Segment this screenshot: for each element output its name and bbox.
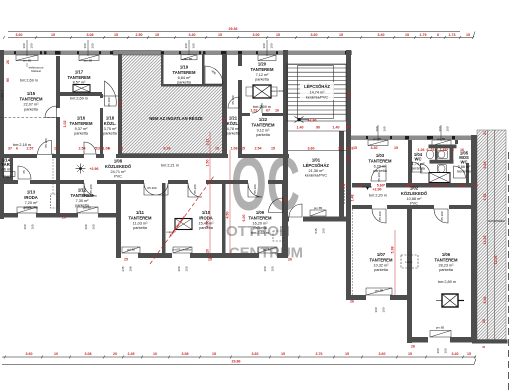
svg-text:360: 360 (375, 126, 379, 131)
level symbol 1/02 (362, 187, 372, 190)
dashed lines (0, 118, 509, 390)
svg-text:3.60: 3.60 (16, 33, 23, 37)
svg-text:TANTEREM: TANTEREM (251, 67, 274, 72)
top overall chain line (8, 31, 460, 33)
svg-text:22,07 m²: 22,07 m² (24, 103, 40, 107)
dashed box LM.K near 1/07 (401, 255, 418, 268)
doors (arcs) (18, 66, 448, 223)
red dims right block corridor wall (341, 184, 479, 188)
wall under 1/17 (56, 92, 102, 96)
svg-text:65: 65 (22, 170, 26, 174)
svg-text:5.46: 5.46 (483, 297, 487, 304)
svg-text:9,37 m²: 9,37 m² (75, 127, 89, 131)
radiator 1/10 window (173, 247, 192, 253)
svg-text:360: 360 (374, 307, 378, 312)
red dims bottom walls (62, 216, 415, 349)
svg-text:parketta: parketta (226, 132, 241, 136)
thin line staircase opening to corridor (288, 150, 346, 152)
svg-text:TANTEREM: TANTEREM (249, 216, 272, 221)
door 1/03 (371, 166, 386, 181)
room 1/06 TANTEREM (435, 252, 458, 284)
svg-text:TANTEREM: TANTEREM (370, 258, 393, 263)
svg-text:kerámia/PVC: kerámia/PVC (306, 96, 329, 100)
svg-text:05: 05 (346, 126, 350, 130)
inner wall between 1/01 and shaft (339, 131, 344, 217)
svg-text:1.31: 1.31 (433, 184, 440, 188)
red vertical line 1/07 (394, 230, 396, 295)
svg-text:160: 160 (322, 228, 326, 233)
svg-text:pm:85: pm:85 (436, 326, 445, 330)
staircase left wall (283, 50, 288, 198)
svg-text:25: 25 (124, 258, 128, 262)
corridor 1/02 bottom wall (352, 205, 372, 209)
wall between 1/07 and 1/06 (407, 209, 412, 343)
svg-text:360: 360 (177, 266, 181, 271)
door 1/01 to 1/09 side (269, 198, 284, 213)
right wall of left block (346, 50, 351, 225)
door 1/16 to corridor (84, 142, 96, 154)
svg-text:1.40: 1.40 (333, 126, 340, 130)
svg-text:245: 245 (121, 266, 125, 271)
svg-text:1.08: 1.08 (103, 146, 110, 150)
svg-text:bm:2,69 m: bm:2,69 m (253, 105, 271, 109)
svg-text:1/07: 1/07 (377, 252, 386, 257)
svg-text:kerámia: kerámia (457, 170, 471, 174)
room 1/16 TANTEREM (70, 116, 93, 136)
radiator 1/11 window (122, 247, 140, 253)
red dims bottom of hatch (123, 145, 125, 149)
svg-text:KÖZLEKEDŐ: KÖZLEKEDŐ (401, 191, 428, 196)
svg-text:2.50: 2.50 (136, 33, 143, 37)
svg-text:16,20 m²: 16,20 m² (253, 222, 269, 226)
right wall of 1/09 (282, 180, 288, 258)
svg-text:kerámia/PVC: kerámia/PVC (305, 174, 328, 178)
svg-text:67: 67 (266, 109, 270, 113)
bottom wall of staircase 1/01 (283, 217, 289, 222)
svg-text:TANTEREM: TANTEREM (435, 258, 458, 263)
watermark OC Otthon Centrum (226, 142, 303, 262)
svg-text:KÖZLEKEDŐ: KÖZLEKEDŐ (105, 164, 132, 169)
partition between 1/20 and 1/22 (242, 113, 250, 116)
hatched strip SZOMSZED (477, 130, 506, 340)
wall between 1/15 and 1/17 (56, 56, 60, 108)
svg-text:65 200: 65 200 (147, 186, 157, 190)
svg-text:kerámia: kerámia (411, 167, 425, 171)
left edge vertical text (0, 90, 4, 101)
svg-text:1.02: 1.02 (251, 109, 258, 113)
svg-text:7,20 m²: 7,20 m² (25, 201, 39, 205)
svg-text:pnl:85: pnl:85 (23, 206, 32, 210)
svg-text:15: 15 (345, 352, 349, 356)
red diagonal dashed measure line (150, 176, 214, 264)
svg-text:3.08: 3.08 (85, 352, 92, 356)
svg-text:1/03: 1/03 (376, 153, 385, 158)
svg-text:37: 37 (8, 146, 12, 150)
svg-text:7,12 m²: 7,12 m² (256, 73, 270, 77)
svg-text:7,30 m²: 7,30 m² (76, 199, 90, 203)
room 1/19 left partition (161, 54, 164, 86)
svg-text:TANTEREM: TANTEREM (68, 75, 91, 80)
left wall of right block lower part (346, 225, 351, 300)
svg-text:3.08: 3.08 (87, 33, 94, 37)
dashed ceiling line in 1/15 (0, 117, 56, 119)
hatched bottom edge of szomszed (472, 340, 508, 344)
svg-text:16: 16 (474, 184, 478, 188)
svg-text:bm:2,21 m: bm:2,21 m (161, 164, 179, 168)
door 1/15 to corridor (38, 141, 52, 155)
svg-text:8: 8 (427, 184, 429, 188)
wall between 1/12 and 1/11 (116, 184, 121, 258)
svg-text:24: 24 (431, 148, 435, 152)
radiator 1/06 window (430, 331, 451, 338)
red small dims left edge (6, 60, 287, 222)
red dims right block top (353, 146, 464, 152)
svg-text:KÖZL.: KÖZL. (104, 121, 117, 126)
partition 1/11-1/10 (162, 183, 166, 253)
svg-text:1.02: 1.02 (63, 121, 67, 128)
shaft with X in 1/20 (253, 85, 271, 98)
svg-text:25: 25 (283, 198, 287, 202)
svg-text:26: 26 (411, 345, 415, 349)
svg-text:1.35: 1.35 (483, 194, 487, 201)
svg-text:LÉPCSŐHÁZ: LÉPCSŐHÁZ (303, 163, 329, 168)
svg-text:bm:2,69 m: bm:2,69 m (20, 79, 38, 83)
svg-text:1.08: 1.08 (231, 146, 238, 150)
staircase inner stairwell rect (298, 66, 334, 119)
svg-text:3.60: 3.60 (379, 352, 386, 356)
svg-text:1.26: 1.26 (459, 184, 466, 188)
svg-text:14,74 m²: 14,74 m² (310, 91, 326, 95)
door 1/20-1/22 (252, 103, 262, 113)
svg-text:15: 15 (54, 146, 58, 150)
bottom wall of 1/07 (346, 295, 366, 300)
svg-text:160: 160 (383, 126, 387, 131)
room 1/21 KOZL (226, 116, 241, 136)
hatch area right wall (222, 54, 227, 158)
svg-text:5.64: 5.64 (483, 162, 487, 169)
svg-text:3,75 m²: 3,75 m² (104, 127, 118, 131)
room 1/18 KOZL (103, 116, 118, 136)
svg-text:1/08: 1/08 (114, 159, 123, 164)
svg-text:15: 15 (276, 33, 280, 37)
room 1/04 WC (411, 152, 425, 171)
thin line top of 1/01 (stair landing line) (288, 130, 346, 132)
hatch area bottom wall / corridor top (118, 154, 227, 159)
svg-text:3.60: 3.60 (26, 352, 33, 356)
1/16 top opening line (103, 95, 118, 97)
svg-text:bm:2,18 m: bm:2,18 m (13, 143, 31, 147)
room 1/05 MOS WC (457, 151, 471, 174)
svg-text:pnl:85: pnl:85 (127, 248, 136, 252)
bottom wall of 1/06 (412, 337, 428, 343)
svg-text:1/12: 1/12 (78, 188, 87, 193)
hatched area NEM AZ INGATLAN RESZE (120, 54, 224, 154)
svg-text:PVC: PVC (410, 202, 418, 206)
red vertical chain line right of 1/10 (229, 150, 231, 258)
svg-text:15: 15 (394, 146, 398, 150)
door 1/21 (228, 97, 239, 108)
svg-text:2.54: 2.54 (79, 146, 86, 150)
svg-text:parketta: parketta (373, 169, 388, 173)
storage 1/14 walls (10, 158, 13, 180)
hatched wall segment over not-property area (113, 51, 161, 56)
svg-text:16 1: 16 1 (341, 184, 348, 188)
svg-text:6,29 m²: 6,29 m² (374, 165, 388, 169)
room 1/09 TANTEREM (249, 210, 272, 235)
svg-text:85 200: 85 200 (193, 184, 197, 194)
svg-text:360: 360 (83, 43, 87, 48)
door 400 in hatch area (205, 66, 223, 84)
svg-text:24,71 m²: 24,71 m² (111, 170, 127, 174)
svg-text:510: 510 (95, 146, 101, 150)
svg-text:15: 15 (212, 352, 216, 356)
svg-text:LÉPCSŐHÁZ: LÉPCSŐHÁZ (304, 84, 330, 89)
red dims staircase width (297, 126, 351, 130)
svg-text:1/15: 1/15 (27, 91, 36, 96)
svg-text:IRODA: IRODA (199, 216, 213, 221)
right block top exterior wall band (348, 136, 477, 141)
svg-text:6.26: 6.26 (164, 146, 171, 150)
svg-text:KÖZL.: KÖZL. (227, 121, 240, 126)
svg-text:10,88 m²: 10,88 m² (407, 197, 423, 201)
svg-text:3.00: 3.00 (253, 33, 260, 37)
svg-text:15: 15 (218, 33, 222, 37)
svg-text:15: 15 (353, 146, 357, 150)
svg-text:6: 6 (452, 148, 454, 152)
door 1/13 (18, 166, 31, 179)
corridor 1/02 label (369, 186, 428, 206)
door 1/01 bottom (289, 204, 302, 217)
svg-text:15,42 m²: 15,42 m² (199, 222, 215, 226)
svg-text:3.40: 3.40 (371, 146, 378, 150)
wall right of door 400 (238, 54, 242, 66)
dashed lines in right block left wall (344, 184, 346, 204)
room 1/19 bottom partition (161, 84, 223, 87)
svg-text:9.31: 9.31 (347, 92, 351, 99)
double door 1/11 (144, 183, 156, 195)
svg-text:5.38: 5.38 (391, 247, 395, 254)
room 1/03 TANTEREM (369, 153, 392, 173)
svg-text:29.36: 29.36 (229, 27, 238, 31)
svg-text:10: 10 (153, 352, 157, 356)
svg-text:160: 160 (271, 266, 275, 271)
svg-text:15: 15 (241, 146, 245, 150)
svg-text:parketta: parketta (199, 226, 214, 230)
svg-text:3.60: 3.60 (311, 33, 318, 37)
svg-text:3.60: 3.60 (308, 146, 315, 150)
svg-text:pnl:85: pnl:85 (83, 206, 92, 210)
radiator 1/07 window (366, 288, 392, 295)
svg-text:28,23 m²: 28,23 m² (439, 264, 455, 268)
hatch area left wall (118, 54, 122, 158)
top exterior wall band (0, 51, 352, 56)
bottom dimension chain (2, 356, 476, 358)
room 1/12 TANTEREM (71, 188, 94, 208)
svg-text:90: 90 (316, 126, 320, 130)
svg-text:pnl:85 radiátor: pnl:85 radiátor (172, 248, 191, 252)
svg-text:21: 21 (483, 131, 487, 135)
thin room outline lines (103, 96, 346, 151)
door 1/09 (248, 183, 262, 197)
red vertical dims szomszed strip (482, 131, 498, 348)
svg-text:bm:85: bm:85 (184, 57, 193, 61)
svg-text:6: 6 (437, 33, 439, 37)
svg-text:pm:85: pm:85 (437, 137, 446, 141)
svg-text:1/06: 1/06 (442, 252, 451, 257)
svg-text:1/21: 1/21 (229, 116, 238, 121)
svg-text:mkng: mkng (166, 230, 174, 234)
svg-text:8,57 m²: 8,57 m² (73, 81, 87, 85)
dashed shaft next to wall 1/13 (51, 194, 58, 208)
svg-text:13.56: 13.56 (483, 236, 487, 245)
svg-text:26: 26 (6, 60, 10, 64)
svg-text:1/22: 1/22 (259, 117, 268, 122)
svg-text:15: 15 (467, 352, 471, 356)
svg-text:6.00: 6.00 (242, 215, 246, 222)
svg-text:1/10: 1/10 (202, 210, 211, 215)
svg-text:3.08: 3.08 (182, 352, 189, 356)
svg-text:pnl:85: pnl:85 (263, 248, 272, 252)
svg-text:1/09: 1/09 (256, 210, 265, 215)
svg-text:parketta: parketta (439, 268, 454, 272)
svg-text:1/19: 1/19 (180, 65, 189, 70)
svg-text:3.40: 3.40 (378, 33, 385, 37)
svg-text:1/13: 1/13 (27, 190, 36, 195)
svg-text:3.40: 3.40 (452, 352, 459, 356)
svg-text:1.50: 1.50 (206, 160, 210, 167)
svg-text:160: 160 (192, 43, 196, 48)
wall under 1/03 and WC (352, 183, 371, 188)
svg-text:65 200: 65 200 (231, 95, 235, 105)
svg-text:15: 15 (405, 33, 409, 37)
svg-text:3.19: 3.19 (118, 101, 122, 108)
WC shaft crossed (429, 173, 450, 183)
wall between 1/13 and 1/12 (56, 158, 60, 215)
door 1/06 (434, 209, 448, 223)
svg-text:2.54: 2.54 (255, 146, 262, 150)
svg-text:10,32 m²: 10,32 m² (374, 264, 390, 268)
room 1/22 TANTEREM (252, 117, 275, 137)
svg-text:parketta: parketta (103, 132, 118, 136)
door 1/18 (105, 81, 117, 106)
svg-text:85 200: 85 200 (44, 138, 48, 148)
svg-text:parketta: parketta (255, 78, 270, 82)
radiator 1/01 (310, 210, 326, 216)
window centre ticks top (27, 40, 267, 56)
shaft with X in 1/06 (442, 294, 458, 307)
svg-text:360: 360 (436, 348, 440, 353)
svg-text:szem:200: szem:200 (270, 89, 283, 93)
room 1/17 TANTEREM (68, 59, 93, 101)
svg-text:160: 160 (185, 266, 189, 271)
svg-text:160: 160 (30, 43, 34, 48)
svg-text:15: 15 (408, 352, 412, 356)
room 1/07 TANTEREM (370, 252, 393, 272)
svg-text:TÁR.: TÁR. (1, 162, 11, 167)
svg-text:IRODA: IRODA (24, 195, 38, 200)
small boxes beside shaft (246, 87, 253, 96)
radiator 1/09 window (258, 247, 277, 253)
svg-text:bm:2,69 m: bm:2,69 m (70, 97, 88, 101)
room 1/20 TANTEREM (251, 62, 284, 110)
svg-text:8: 8 (482, 346, 486, 348)
svg-text:360: 360 (184, 43, 188, 48)
red vertical chain center (209, 132, 211, 258)
svg-text:360: 360 (23, 224, 27, 229)
staircase 1/01 label (303, 158, 329, 178)
svg-text:TANTEREM: TANTEREM (20, 97, 43, 102)
svg-text:15: 15 (466, 33, 470, 37)
svg-text:15: 15 (215, 146, 219, 150)
chimney box in 1/10 (175, 219, 192, 230)
svg-text:parketta: parketta (133, 226, 148, 230)
svg-text:360: 360 (84, 224, 88, 229)
svg-text:15: 15 (51, 33, 55, 37)
top chain numbers (16, 33, 471, 37)
svg-text:WC: WC (415, 157, 422, 162)
window symbols under top band (16, 55, 276, 61)
blackboard symbol in 1/17 (73, 85, 90, 93)
bottom wall of 1/13 1/12 (0, 213, 18, 218)
top dimension chain line (8, 37, 473, 39)
svg-text:15: 15 (155, 33, 159, 37)
svg-text:21,36 m²: 21,36 m² (309, 169, 325, 173)
svg-text:85 200: 85 200 (253, 184, 257, 194)
svg-text:3.11: 3.11 (347, 157, 351, 164)
partition right of room 1/19 (202, 54, 205, 86)
svg-text:3.40: 3.40 (189, 33, 196, 37)
WC toilets (426, 150, 447, 173)
door 1/07 (372, 209, 386, 223)
room 1/15 TANTEREM (20, 59, 44, 112)
door size labels rotated (22, 69, 444, 221)
radiator 1/13 window (17, 207, 37, 213)
svg-text:3,66 m²: 3,66 m² (458, 165, 472, 169)
svg-text:160: 160 (444, 348, 448, 353)
room 1/19 TANTEREM (173, 57, 196, 85)
svg-text:1/02: 1/02 (410, 186, 419, 191)
svg-text:360: 360 (22, 43, 26, 48)
svg-text:+2.96: +2.96 (89, 167, 98, 171)
svg-text:198: 198 (129, 266, 133, 271)
svg-text:TANTEREM: TANTEREM (369, 159, 392, 164)
corridor top wall (0, 154, 37, 158)
room 1/13 IRODA (24, 190, 39, 210)
right outer wall of right block (471, 135, 477, 342)
svg-text:1.66*: 1.66* (440, 148, 449, 152)
svg-text:160: 160 (91, 43, 95, 48)
svg-text:160: 160 (446, 126, 450, 131)
svg-text:360: 360 (438, 126, 442, 131)
svg-text:26: 26 (350, 300, 354, 304)
svg-text:1/18: 1/18 (106, 116, 115, 121)
svg-text:20: 20 (113, 352, 117, 356)
svg-text:2.45: 2.45 (128, 352, 135, 356)
svg-text:32: 32 (222, 118, 226, 122)
svg-text:parketta: parketta (253, 226, 268, 230)
svg-text:1,74 m²: 1,74 m² (412, 162, 426, 166)
WC inner walls (429, 145, 457, 149)
svg-text:90: 90 (6, 78, 10, 82)
room 1/11 TANTEREM (129, 210, 152, 230)
tick marks top chain (3, 36, 474, 39)
svg-text:29.86: 29.86 (232, 360, 241, 364)
wall between 1/16 and 1/18 (100, 94, 103, 98)
svg-text:+2.90: +2.90 (307, 119, 316, 123)
svg-text:parketta: parketta (374, 268, 389, 272)
svg-text:PVC: PVC (3, 175, 11, 179)
svg-text:15: 15 (114, 33, 118, 37)
